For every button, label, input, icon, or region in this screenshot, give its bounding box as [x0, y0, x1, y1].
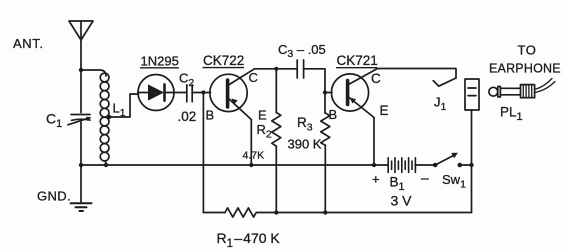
wire C2 to base node — [192, 92, 203, 94]
wire emitter CK722 down — [250, 120, 252, 166]
node antenna junction — [79, 68, 83, 72]
svg-text:CK722: CK722 — [203, 53, 244, 68]
wire base node to transistor — [203, 92, 210, 94]
capacitor C3 — [297, 60, 303, 78]
svg-text:E: E — [380, 103, 389, 118]
node base CK721 — [323, 90, 327, 94]
resistor R2 — [272, 113, 281, 147]
wire R3 to bottom bus — [324, 145, 326, 212]
wire bottom bus right — [256, 212, 471, 214]
transistor Q2 CK721 — [331, 69, 377, 118]
svg-text:3 V: 3 V — [391, 193, 413, 209]
battery B1 — [388, 158, 415, 173]
resistor R3 — [321, 113, 330, 145]
svg-text:B: B — [329, 107, 338, 122]
underline CK722 — [203, 67, 245, 69]
svg-text:ANT.: ANT. — [13, 36, 44, 51]
svg-text:+: + — [372, 172, 380, 187]
jack J1 plug contact — [433, 78, 456, 86]
wire collector node — [255, 68, 298, 70]
ground wire — [80, 165, 82, 202]
node coil bottom — [104, 163, 108, 167]
svg-text:1N295: 1N295 — [141, 54, 179, 69]
svg-text:TO: TO — [518, 43, 537, 58]
wire antenna down to node — [80, 40, 82, 70]
capacitor C2 — [187, 85, 192, 102]
switch Sw1 — [433, 153, 462, 168]
svg-text:C: C — [371, 71, 381, 86]
node base CK722 — [201, 90, 205, 94]
svg-text:390 K: 390 K — [288, 137, 322, 152]
transistor Q1 CK722 — [210, 69, 255, 120]
wire tap to diode — [109, 94, 138, 117]
node bus left — [79, 163, 83, 167]
node R2 top — [274, 67, 278, 71]
inductor L1 — [100, 73, 109, 161]
wire left rail lower — [80, 122, 82, 165]
wire jack to right rail — [471, 110, 473, 213]
wire junction to coil top — [81, 70, 106, 76]
wire R2 to bottom bus — [275, 146, 277, 212]
wire base node down to bottom bus — [202, 93, 204, 213]
wire emitter CK721 down — [373, 118, 375, 166]
wire battery to switch — [415, 164, 435, 166]
svg-text:–: – — [421, 170, 429, 186]
node rail mid — [469, 163, 473, 167]
wire C3 to base node CK721 — [304, 69, 325, 93]
svg-text:EARPHONE: EARPHONE — [489, 62, 561, 76]
wire coil bottom to bus — [105, 161, 108, 165]
svg-text:B: B — [206, 108, 215, 123]
wire mid bus — [81, 164, 388, 166]
underline 1N295 — [140, 67, 179, 69]
svg-text:C: C — [249, 70, 258, 85]
node R2 bottom — [274, 210, 278, 214]
wire node to R2 — [275, 69, 277, 113]
diode D1 1N295 — [138, 75, 174, 111]
earphone plug PL1 — [489, 79, 555, 98]
jack J1 body — [465, 79, 479, 110]
wire left rail upper — [80, 70, 82, 113]
svg-text:4.7K: 4.7K — [243, 150, 265, 162]
antenna — [69, 21, 93, 40]
wire bottom bus left — [203, 212, 225, 214]
svg-text:E: E — [258, 108, 267, 123]
capacitor C1 (variable) — [68, 115, 92, 125]
node emitter CK721 on bus — [372, 163, 376, 167]
wire base node to CK721 — [325, 92, 332, 94]
wire base node to R3 — [324, 93, 326, 114]
svg-text:GND.: GND. — [37, 189, 71, 204]
wire switch to rail — [460, 164, 472, 166]
svg-text:CK721: CK721 — [337, 53, 378, 68]
node R3 bottom — [323, 210, 327, 214]
underline CK721 — [336, 67, 377, 69]
node emitter CK722 on bus — [249, 163, 253, 167]
resistor R1 — [225, 208, 256, 217]
wire diode to C2 — [174, 92, 186, 94]
node coil tap — [107, 115, 111, 119]
wire collector CK721 to jack — [378, 69, 457, 79]
svg-text:.02: .02 — [178, 109, 197, 124]
ground — [71, 203, 92, 211]
